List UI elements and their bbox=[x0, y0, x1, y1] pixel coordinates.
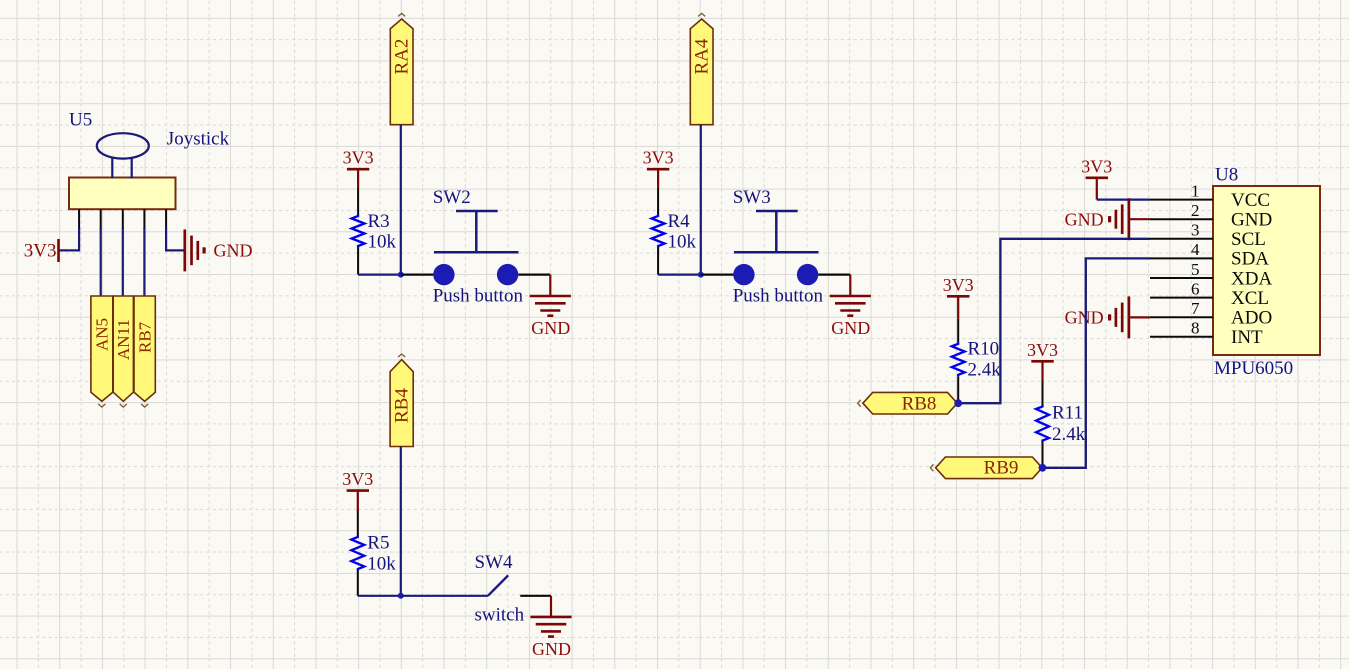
port RA4 bbox=[690, 13, 713, 124]
U8 pin 3 SCL bbox=[1150, 221, 1266, 251]
svg-text:RA4: RA4 bbox=[692, 38, 713, 74]
power port 3V3 at U8 VCC bbox=[1081, 156, 1112, 199]
wire junction to SW3 bbox=[701, 274, 734, 276]
wire 3V3 to U8 pin1 bbox=[1097, 199, 1150, 201]
U5 pin 4 bbox=[143, 209, 145, 229]
junction at RB8/R10/SCL bbox=[954, 399, 962, 407]
power ground GND at U8 pin7 bbox=[1129, 316, 1150, 318]
port AN11 bbox=[113, 296, 133, 407]
svg-text:GND: GND bbox=[1231, 210, 1272, 231]
resistor R11 bbox=[1036, 382, 1049, 468]
U8 pin 8 INT bbox=[1150, 319, 1263, 349]
push button SW2 bbox=[433, 211, 518, 285]
power ground GND at SW4 bbox=[530, 596, 571, 659]
svg-text:3V3: 3V3 bbox=[1027, 340, 1058, 360]
svg-text:U8: U8 bbox=[1215, 165, 1238, 186]
svg-text:6: 6 bbox=[1191, 279, 1200, 298]
component U5 joystick body bbox=[69, 133, 176, 209]
junction at R3/RA2 bbox=[398, 272, 404, 278]
wire junction to SW4 bbox=[401, 595, 488, 597]
svg-text:3V3: 3V3 bbox=[943, 275, 974, 295]
power port 3V3 at R4 bbox=[643, 148, 674, 189]
svg-text:GND: GND bbox=[531, 318, 570, 338]
svg-text:R11: R11 bbox=[1052, 403, 1083, 424]
port RB4 bbox=[390, 354, 413, 447]
push button SW3 bbox=[733, 211, 818, 285]
resistor R4 bbox=[652, 189, 665, 275]
svg-text:10k: 10k bbox=[368, 232, 397, 253]
wire SW3 to GND bbox=[818, 274, 850, 276]
U8 pin 6 XCL bbox=[1150, 279, 1269, 309]
svg-text:2: 2 bbox=[1191, 201, 1200, 220]
svg-text:SW2: SW2 bbox=[433, 187, 471, 208]
svg-text:GND: GND bbox=[831, 318, 870, 338]
port RB9 bbox=[930, 457, 1042, 479]
resistor R10 bbox=[952, 319, 965, 404]
svg-text:10k: 10k bbox=[367, 554, 396, 575]
junction at R4/RA4 bbox=[698, 272, 704, 278]
U5 pin 5 bbox=[165, 209, 167, 229]
U5 pin 1 bbox=[78, 209, 80, 229]
switch SW4 bbox=[488, 575, 508, 596]
svg-text:RB9: RB9 bbox=[984, 458, 1019, 479]
svg-text:SCL: SCL bbox=[1231, 229, 1266, 250]
wire U5 pin4 to RB7 bbox=[143, 228, 145, 297]
wire SCL net U8 pin3 to RB8 junction bbox=[958, 239, 1150, 403]
power port 3V3 at R5 bbox=[342, 469, 373, 510]
wire R3 to junction bbox=[358, 274, 401, 276]
power port 3V3 at R10 bbox=[943, 275, 974, 319]
svg-text:3: 3 bbox=[1191, 221, 1200, 240]
svg-text:INT: INT bbox=[1231, 327, 1263, 348]
svg-text:3V3: 3V3 bbox=[1081, 156, 1112, 176]
svg-text:RB4: RB4 bbox=[392, 388, 413, 423]
svg-text:XDA: XDA bbox=[1231, 268, 1272, 289]
svg-text:Push button: Push button bbox=[733, 286, 824, 307]
svg-text:ADO: ADO bbox=[1231, 308, 1272, 329]
svg-text:RB8: RB8 bbox=[902, 394, 937, 415]
svg-text:MPU6050: MPU6050 bbox=[1214, 358, 1293, 379]
wire U5 pin3 to AN11 bbox=[122, 228, 124, 297]
svg-text:SW3: SW3 bbox=[733, 187, 771, 208]
svg-text:GND: GND bbox=[214, 241, 253, 261]
power port 3V3 at R3 bbox=[343, 148, 374, 189]
svg-text:RB7: RB7 bbox=[136, 321, 155, 353]
wire SW2 to GND bbox=[518, 274, 550, 276]
wire U5 pin1 to 3V3 bbox=[60, 228, 80, 250]
svg-text:R10: R10 bbox=[968, 339, 1000, 360]
U8 pin 4 SDA bbox=[1150, 240, 1269, 270]
wire RA4 to junction bbox=[700, 125, 702, 275]
resistor R5 bbox=[351, 511, 364, 596]
power ground GND at SW3 bbox=[830, 275, 871, 338]
svg-text:AN11: AN11 bbox=[114, 319, 133, 360]
svg-text:AN5: AN5 bbox=[93, 318, 112, 351]
svg-text:3V3: 3V3 bbox=[342, 469, 373, 489]
svg-text:SW4: SW4 bbox=[475, 552, 514, 573]
svg-text:1: 1 bbox=[1191, 181, 1200, 200]
svg-text:GND: GND bbox=[532, 639, 571, 659]
power ground GND at U5 bbox=[185, 229, 253, 271]
U5 pin 3 bbox=[122, 209, 124, 229]
svg-text:GND: GND bbox=[1065, 209, 1104, 229]
svg-text:2.4k: 2.4k bbox=[1052, 424, 1086, 445]
svg-text:XCL: XCL bbox=[1231, 288, 1269, 309]
svg-text:10k: 10k bbox=[668, 232, 697, 253]
svg-text:VCC: VCC bbox=[1231, 190, 1270, 211]
junction at RB9/R11/SDA bbox=[1039, 464, 1047, 472]
power port 3V3 at U5 bbox=[24, 239, 59, 262]
wire junction to SW2 bbox=[401, 274, 434, 276]
wire RA2 to junction bbox=[400, 125, 402, 275]
U8 pin 1 VCC bbox=[1150, 181, 1270, 211]
svg-text:SDA: SDA bbox=[1231, 249, 1269, 270]
wire R5 to junction bbox=[358, 595, 401, 597]
svg-text:3V3: 3V3 bbox=[643, 148, 674, 168]
svg-text:R5: R5 bbox=[367, 533, 389, 554]
U8 pin 7 ADO bbox=[1150, 299, 1272, 329]
component U8 MPU6050 body bbox=[1213, 186, 1320, 355]
U8 pin 5 XDA bbox=[1150, 260, 1272, 290]
svg-text:RA2: RA2 bbox=[392, 39, 413, 75]
power ground GND at SW2 bbox=[530, 275, 571, 338]
wire SW4 to GND bbox=[520, 595, 551, 597]
port RA2 bbox=[390, 13, 413, 124]
power ground GND at U8 pin2 bbox=[1129, 218, 1150, 220]
resistor R3 bbox=[352, 189, 365, 275]
svg-text:7: 7 bbox=[1191, 299, 1200, 318]
svg-text:5: 5 bbox=[1191, 260, 1200, 279]
svg-text:GND: GND bbox=[1065, 308, 1104, 328]
wire RB4 to junction bbox=[400, 447, 402, 596]
wire U5 pin2 to AN5 bbox=[100, 228, 102, 297]
wire U5 pin5 to GND bbox=[166, 228, 185, 250]
svg-text:Push button: Push button bbox=[433, 286, 524, 307]
wire R4 to junction bbox=[658, 274, 701, 276]
svg-text:Joystick: Joystick bbox=[167, 129, 230, 150]
svg-text:switch: switch bbox=[475, 605, 525, 626]
port AN5 bbox=[91, 296, 113, 407]
U5 pin 2 bbox=[100, 209, 102, 229]
svg-text:R4: R4 bbox=[668, 211, 691, 232]
port RB7 bbox=[134, 296, 155, 407]
svg-text:8: 8 bbox=[1191, 319, 1200, 338]
svg-text:U5: U5 bbox=[69, 110, 92, 131]
junction at R5/RB4 bbox=[398, 593, 404, 599]
svg-text:3V3: 3V3 bbox=[343, 148, 374, 168]
svg-text:2.4k: 2.4k bbox=[968, 360, 1002, 381]
power port 3V3 at R11 bbox=[1027, 340, 1058, 382]
svg-text:R3: R3 bbox=[368, 211, 390, 232]
port RB8 bbox=[858, 392, 958, 414]
svg-text:3V3: 3V3 bbox=[24, 241, 57, 262]
U8 pin 2 GND bbox=[1150, 201, 1272, 231]
svg-text:4: 4 bbox=[1191, 240, 1200, 259]
wire SDA net U8 pin4 to RB9 junction bbox=[1043, 258, 1151, 467]
